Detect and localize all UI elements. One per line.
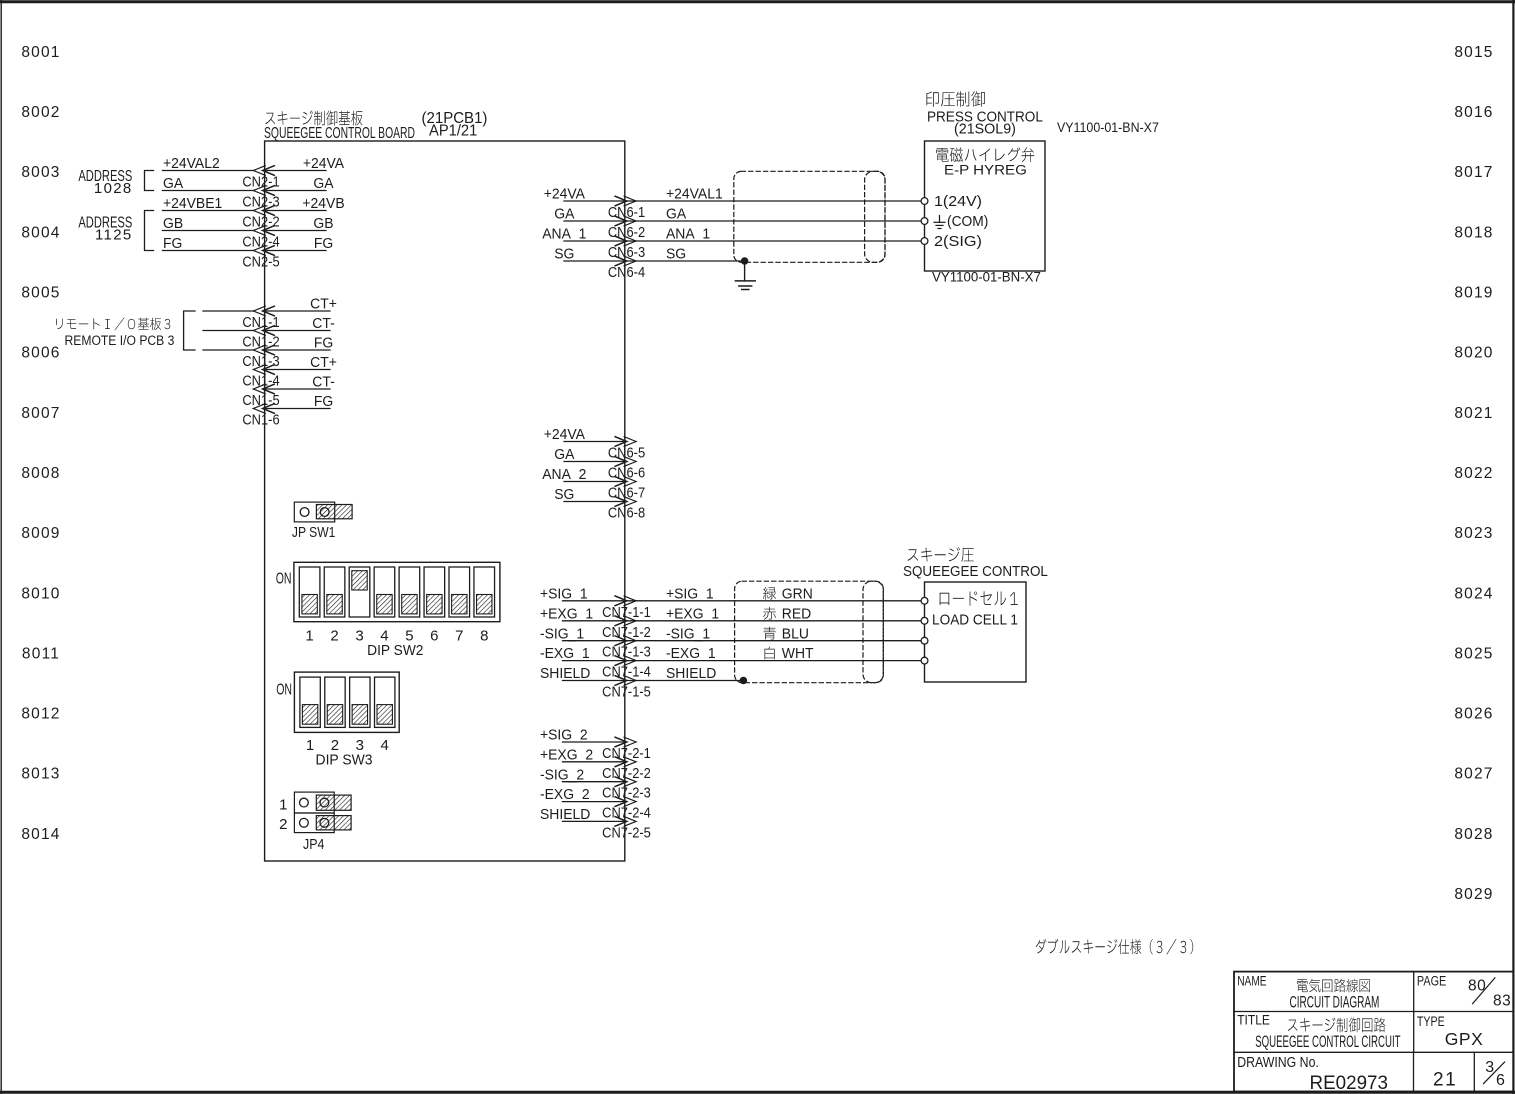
svg-text:8013: 8013 [21,766,60,783]
svg-text:WHT: WHT [782,646,814,663]
title block divider v3 [1473,1052,1475,1091]
svg-text:8003: 8003 [21,164,60,181]
svg-text:8006: 8006 [21,345,60,362]
svg-text:6: 6 [1496,1072,1505,1089]
svg-text:8005: 8005 [21,285,60,302]
wire FG from CN1-3 [266,349,330,351]
svg-text:1028: 1028 [94,180,133,197]
svg-text:8014: 8014 [21,826,60,843]
DIP SW2 slot 4 [374,567,395,617]
wire +24VA to CN6-1 [564,200,625,202]
svg-text:SHIELD: SHIELD [540,807,590,824]
wire SHIELD to CN7-1-5 [563,680,625,682]
label 白 wire color [765,647,775,660]
connector pin CN6-8 [608,497,645,521]
connector pin CN6-1 [608,196,645,220]
svg-text:CN1-6: CN1-6 [242,411,279,428]
svg-text:JP SW1: JP SW1 [292,524,335,541]
svg-text:BLU: BLU [782,626,809,643]
svg-text:8011: 8011 [22,645,60,662]
svg-text:FG: FG [314,335,333,352]
svg-text:8007: 8007 [21,405,60,422]
svg-text:8012: 8012 [21,706,60,723]
svg-text:ANA_2: ANA_2 [542,467,586,484]
svg-text:1125: 1125 [95,226,132,243]
connector pin CN6-6 [608,457,645,481]
load cell terminal 1 [921,597,928,604]
JP4 row1 pin 1 [300,798,309,807]
svg-text:-SIG_1: -SIG_1 [666,626,710,643]
page fraction slash [1473,978,1495,1004]
wire +SIG_1 to CN7-1-1 [563,600,625,602]
JP SW1 pin 1 [300,508,309,517]
svg-text:8009: 8009 [21,525,60,542]
svg-text:LOAD CELL 1: LOAD CELL 1 [932,612,1018,629]
load cell terminal 2 [921,617,928,624]
svg-text:8025: 8025 [1454,645,1493,662]
label 電磁ハイレグ弁 [936,147,1034,162]
wire -EXG_1 to load cell [625,660,921,662]
connector pin CN6-3 [608,236,645,260]
connector pin CN2-4 [242,226,279,250]
svg-text:SG: SG [666,246,686,263]
wire GB from CN2-4 [266,230,326,232]
DIP SW3 lever 3 (OFF) [352,705,367,725]
svg-text:CN2-5: CN2-5 [242,253,279,270]
wire CT- from CN1-2 [266,330,330,332]
svg-text:FG: FG [163,236,182,253]
svg-text:(21SOL9): (21SOL9) [954,121,1016,137]
svg-text:E-P HYREG: E-P HYREG [944,163,1027,178]
label 緑 wire color [763,587,776,600]
wire CT- from CN1-5 [266,388,330,390]
svg-text:AP1/21: AP1/21 [429,122,477,139]
svg-text:ON: ON [276,569,292,587]
switch DIP SW2 body [294,562,500,621]
svg-text:2(SIG): 2(SIG) [934,234,982,250]
jumper JP SW1 shorting block (hatched) [316,505,352,519]
label スキージ制御基板 [265,111,362,126]
svg-text:CN7-2-5: CN7-2-5 [602,823,651,840]
svg-text:ANA_1: ANA_1 [666,226,710,243]
svg-text:FG: FG [314,236,333,253]
wire remote I/O to CN1-1 [203,310,254,312]
wire -EXG_2 to CN7-2-4 [563,801,625,803]
load cell terminal 4 [921,657,928,664]
svg-text:GA: GA [666,206,686,223]
svg-text:SQUEEGEE CONTROL: SQUEEGEE CONTROL [903,564,1048,581]
wire GA to CN2-3 [163,190,254,192]
svg-text:+24VAL2: +24VAL2 [163,156,220,173]
wire GA to CN6-2 [564,220,625,222]
connector pin CN1-5 [242,384,279,408]
wire +24VA from CN2-1 [266,170,326,172]
jumper JP4 row 2 shorting block (hatched) [316,816,351,830]
wire remote I/O to CN1-3 [203,349,254,351]
svg-text:8028: 8028 [1454,826,1493,843]
DIP SW2 slot 2 [324,567,345,617]
connector pin CN7-1-5 [602,676,651,700]
svg-text:2: 2 [279,816,287,833]
svg-text:CT+: CT+ [310,296,337,313]
svg-text:7: 7 [455,628,463,645]
svg-text:3: 3 [355,628,363,645]
wire -SIG_1 to load cell [625,640,921,642]
wire FG to CN2-5 [163,250,254,252]
connector pin CN7-2-4 [602,797,651,821]
svg-text:CN7-1-5: CN7-1-5 [602,683,651,700]
svg-text:8015: 8015 [1454,44,1493,61]
wire SG down to ground symbol [744,261,746,281]
wire SG to CN6-4 [564,260,625,262]
svg-text:ON: ON [276,680,292,698]
DIP SW2 slot 5 [399,567,420,617]
svg-text:TITLE: TITLE [1237,1012,1270,1028]
DIP SW3 lever 4 (OFF) [377,705,392,725]
DIP SW3 slot 4 [375,677,395,727]
connector pin CN2-5 [242,246,279,270]
svg-text:4: 4 [381,737,389,754]
svg-text:RE02973: RE02973 [1310,1073,1388,1094]
svg-text:+24VB: +24VB [302,196,344,213]
wire SG to ground junction [625,260,745,262]
DIP SW2 slot 6 [424,567,445,617]
connector pin CN2-3 [242,186,279,210]
connector pin CN7-2-2 [602,757,651,781]
DIP SW2 slot 8 [474,567,495,617]
svg-text:8026: 8026 [1454,706,1493,723]
wire +24VA to CN6-5 [564,441,625,443]
DIP SW3 slot 2 [325,677,345,727]
shielded cable (dashed) CN7-1 [735,581,884,683]
svg-text:SHIELD: SHIELD [540,666,590,683]
svg-text:-SIG_2: -SIG_2 [540,767,584,784]
connector pin CN6-5 [608,437,645,461]
wire +24VAL2 to CN2-1 [163,170,254,172]
DIP SW2 slot 1 [299,567,320,617]
svg-text:8027: 8027 [1454,766,1493,783]
JP4 row1 pin 2 [320,798,329,807]
svg-text:8: 8 [480,628,488,645]
load cell terminal 3 [921,637,928,644]
wire FG from CN2-5 [266,250,326,252]
label 赤 wire color [763,607,776,620]
bracket ADDRESS 1125 [145,211,154,251]
DIP SW2 lever 6 (OFF) [427,595,442,614]
wire -EXG_1 to CN7-1-4 [563,660,625,662]
bracket ADDRESS 1028 [145,171,154,191]
connector pin CN6-7 [608,477,645,501]
svg-text:FG: FG [314,394,333,411]
wire +EXG_1 to load cell [625,620,921,622]
svg-text:VY1100-01-BN-X7: VY1100-01-BN-X7 [1057,119,1159,135]
svg-text:-EXG_2: -EXG_2 [540,787,590,804]
svg-text:8004: 8004 [21,224,60,241]
svg-text:1: 1 [306,737,314,754]
connector pin CN2-2 [242,206,279,230]
title block divider h2 [1234,1051,1513,1053]
wire GA to CN6-6 [564,461,625,463]
jumper JP4 row 1 body [294,792,334,813]
wire ANA_2 to CN6-7 [564,481,625,483]
wire +24VAL1 to press control [625,200,921,202]
svg-text:SQUEEGEE CONTROL BOARD: SQUEEGEE CONTROL BOARD [264,124,415,142]
connector pin CN1-3 [242,345,279,369]
svg-text:SG: SG [554,246,574,263]
wire +SIG_1 to load cell [625,600,921,602]
wire -SIG_2 to CN7-2-3 [563,781,625,783]
sheet fraction slash [1484,1062,1505,1084]
svg-text:+24VA: +24VA [544,427,586,444]
wire -SIG_1 to CN7-1-3 [563,640,625,642]
DIP SW2 lever 4 (OFF) [377,595,392,614]
DIP SW2 lever 2 (OFF) [327,595,342,614]
connector pin CN6-4 [608,256,645,280]
squeegee control board AP1/21 box [265,141,625,861]
svg-text:REMOTE I/O PCB 3: REMOTE I/O PCB 3 [65,332,175,348]
svg-text:GA: GA [313,176,333,193]
connector pin CN2-1 [242,166,279,190]
DIP SW3 lever 1 (OFF) [302,705,317,725]
svg-text:CT-: CT- [312,374,335,391]
svg-text:+EXG_1: +EXG_1 [540,606,593,623]
JP SW1 pin 2 [320,508,329,517]
terminal 2(SIG) [921,238,928,245]
svg-text:1(24V): 1(24V) [934,194,982,210]
title block outline [1234,972,1513,1092]
connector pin CN1-2 [242,326,279,350]
svg-text:TYPE: TYPE [1417,1014,1445,1030]
wire ANA_1 to press control [625,240,921,242]
connector pin CN1-6 [242,404,279,428]
shielded cable (dashed) CN6 [734,171,885,262]
wire +24VBE1 to CN2-2 [163,210,254,212]
wire GA to press control [625,220,921,222]
JP4 row2 pin 2 [320,818,329,827]
jumper JP4 row 1 shorting block (hatched) [316,795,351,810]
svg-text:+SIG_2: +SIG_2 [540,727,588,744]
svg-text:-SIG_1: -SIG_1 [540,626,584,643]
DIP SW2 lever 7 (OFF) [452,595,467,614]
svg-text:6: 6 [430,628,438,645]
wire +SIG_2 to CN7-2-1 [563,741,625,743]
wire +EXG_2 to CN7-2-2 [563,761,625,763]
wire SG to CN6-8 [564,501,625,503]
svg-text:GA: GA [163,176,183,193]
svg-text:-EXG_1: -EXG_1 [540,646,590,663]
svg-text:SHIELD: SHIELD [666,666,716,683]
svg-text:21: 21 [1433,1070,1457,1091]
DIP SW3 lever 2 (OFF) [327,705,342,725]
wire +24VB from CN2-2 [266,210,326,212]
label 電気回路線図 [1297,979,1370,993]
label スキージ制御回路 [1288,1018,1386,1033]
svg-text:SQUEEGEE CONTROL CIRCUIT: SQUEEGEE CONTROL CIRCUIT [1255,1031,1401,1051]
svg-text:8019: 8019 [1454,285,1493,302]
DIP SW2 lever 3 (ON) [352,571,367,590]
terminal 1(24V) [921,198,928,205]
svg-text:+24VA: +24VA [544,186,586,203]
svg-text:8008: 8008 [21,465,60,482]
svg-text:DRAWING No.: DRAWING No. [1237,1054,1319,1070]
connector pin CN7-1-4 [602,656,651,680]
svg-text:+EXG_2: +EXG_2 [540,747,593,764]
svg-text:8021: 8021 [1454,405,1493,422]
svg-text:+SIG_1: +SIG_1 [666,586,714,603]
svg-text:VY1100-01-BN-X7: VY1100-01-BN-X7 [932,269,1041,284]
wire SHIELD to cable shield [625,680,744,682]
JP4 row2 pin 1 [300,818,309,827]
connector pin CN6-2 [608,216,645,240]
svg-text:8002: 8002 [21,104,60,121]
wire GB to CN2-4 [163,230,254,232]
svg-text:1: 1 [279,796,287,813]
bracket REMOTE I/O PCB 3 [184,311,195,350]
svg-text:CIRCUIT DIAGRAM: CIRCUIT DIAGRAM [1290,991,1380,1010]
svg-text:GB: GB [313,216,333,233]
svg-text:8020: 8020 [1454,345,1493,362]
svg-text:+24VA: +24VA [303,156,345,173]
solenoid valve 21SOL9 box [925,141,1046,271]
DIP SW3 slot 1 [300,677,320,727]
svg-text:GA: GA [554,206,574,223]
wire SHIELD to CN7-2-5 [563,820,625,822]
svg-text:SG: SG [554,487,574,504]
label スキージ圧 [908,547,974,562]
junction dot SHIELD [740,677,747,684]
svg-text:+24VBE1: +24VBE1 [163,196,222,213]
svg-text:CT+: CT+ [310,355,337,372]
wire CT+ from CN1-1 [266,310,330,312]
svg-text:CT-: CT- [312,316,335,333]
svg-text:NAME: NAME [1237,973,1266,989]
svg-text:8016: 8016 [1454,104,1493,121]
svg-text:8001: 8001 [21,44,60,61]
svg-text:DIP SW2: DIP SW2 [367,642,423,659]
cable end capsule CN6 [865,171,885,262]
svg-text:GPX: GPX [1445,1029,1484,1049]
svg-text:GA: GA [554,447,574,464]
svg-text:CN6-4: CN6-4 [608,263,645,280]
svg-text:ANA_1: ANA_1 [542,226,586,243]
ground symbol (CN6 SG) [735,281,755,290]
connector pin CN7-1-3 [602,636,651,660]
svg-text:-EXG_1: -EXG_1 [666,646,716,663]
svg-text:80: 80 [1468,978,1486,995]
wire GA from CN2-3 [266,190,326,192]
DIP SW3 slot 3 [350,677,370,727]
title block divider v2 [1413,1052,1415,1091]
connector pin CN7-2-1 [602,737,651,761]
wire FG from CN1-6 [266,408,330,410]
DIP SW2 lever 1 (OFF) [302,595,317,614]
DIP SW2 slot 7 [449,567,470,617]
svg-text:+EXG_1: +EXG_1 [666,606,719,623]
wire CT+ from CN1-4 [266,369,330,371]
label COM with ground glyph [934,214,988,231]
svg-text:2: 2 [330,628,338,645]
svg-text:DIP SW3: DIP SW3 [316,752,373,769]
svg-text:1: 1 [305,628,313,645]
label 青 wire color [763,627,775,640]
DIP SW2 lever 8 (OFF) [477,595,492,614]
connector pin CN7-2-3 [602,777,651,801]
DIP SW2 slot 3 [349,567,370,617]
svg-text:8022: 8022 [1454,465,1493,482]
label 印圧制御 [926,91,984,107]
svg-text:8010: 8010 [21,585,60,602]
svg-text:CN6-8: CN6-8 [608,504,645,521]
svg-text:(COM): (COM) [947,214,988,231]
svg-text:8029: 8029 [1454,886,1493,903]
svg-text:GB: GB [163,216,183,233]
wire +EXG_1 to CN7-1-2 [563,620,625,622]
terminal COM [921,218,928,225]
svg-text:+SIG_1: +SIG_1 [540,586,588,603]
title block divider h1 [1234,1011,1513,1013]
label リモートI/O基板3 [56,318,170,331]
wire ANA_1 to CN6-3 [564,240,625,242]
svg-text:JP4: JP4 [303,836,325,852]
svg-text:GRN: GRN [782,586,813,603]
svg-text:8017: 8017 [1454,164,1493,181]
svg-text:8018: 8018 [1454,224,1493,241]
title block divider v1 [1413,972,1415,1053]
svg-text:8023: 8023 [1454,525,1493,542]
label ロードセル1 [940,591,1018,606]
connector pin CN1-4 [242,365,279,389]
label ダブルスキージ仕様(3/3) [1036,939,1193,955]
svg-text:83: 83 [1493,992,1511,1009]
junction dot SG [741,258,748,265]
connector pin CN1-1 [242,306,279,330]
jumper JP SW1 body [294,502,334,522]
DIP SW2 lever 5 (OFF) [402,595,417,614]
svg-text:+24VAL1: +24VAL1 [666,186,723,203]
connector pin CN7-1-1 [602,596,651,620]
switch DIP SW3 body [294,672,399,732]
cable end capsule CN7-1 [863,581,883,683]
svg-text:RED: RED [782,606,811,623]
svg-text:8024: 8024 [1454,585,1493,602]
wire remote I/O to CN1-2 [203,330,254,332]
connector pin CN7-2-5 [602,817,651,841]
connector pin CN7-1-2 [602,616,651,640]
svg-text:PAGE: PAGE [1417,973,1446,989]
load cell 1 box [925,582,1027,682]
jumper JP4 row 2 body [294,813,334,833]
